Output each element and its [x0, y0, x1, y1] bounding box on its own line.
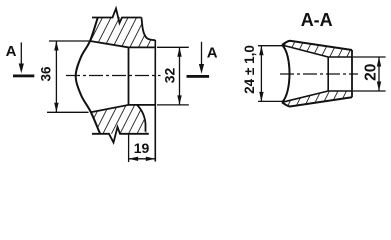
svg-text:19: 19: [134, 140, 150, 156]
A-A: mouth rim arc (bulges right): [282, 45, 290, 102]
A-A: hatched bottom wall: [282, 91, 352, 107]
dimension 24±1,0: dim line with arrows: [260, 46, 262, 102]
left view: hatched bottom wall region: [91, 105, 149, 134]
dimension 24±1,0: extension lines: [258, 45, 285, 47]
A-A: bore top edge: [328, 56, 352, 58]
A-A: right end face: [351, 50, 353, 97]
A-A: bottom outer profile: [282, 97, 352, 106]
section marker left: arrow stem and head: [20, 42, 22, 66]
svg-text:36: 36: [39, 66, 54, 82]
A-A: top inner cone line: [282, 45, 328, 57]
left view: bottom break line with zigzag: [92, 127, 149, 143]
A-A: bore left face: [327, 57, 329, 91]
dimension 19: witness lines: [128, 133, 130, 162]
left view: hatched top wall region: [90, 17, 155, 47]
svg-text:32: 32: [162, 68, 178, 84]
svg-text:20: 20: [362, 64, 379, 81]
section marker right: thick bar: [187, 75, 210, 78]
A-A: centerline: [280, 73, 358, 75]
left view: top break line with zigzag: [92, 9, 142, 24]
left view: centerline: [66, 75, 161, 77]
section marker left: thick bar: [13, 75, 34, 78]
A-A: bottom inner cone line: [282, 91, 328, 102]
A-A: bore bottom edge: [328, 90, 352, 92]
A-A: hatched top wall: [282, 41, 352, 57]
dimension 36: extension lines: [49, 40, 90, 42]
svg-text:A-A: A-A: [301, 10, 333, 30]
left view: bore left face edge: [128, 47, 130, 105]
dimension 36: dim line with arrows: [55, 41, 57, 112]
left view: top fillet to neck: [142, 18, 156, 41]
left view: bottom ogee profile: [137, 105, 146, 132]
left view: neck right face / extension to 19 dim: [154, 40, 156, 162]
extension line to 32 dim (bottom): [157, 104, 189, 106]
left view: bore top edge: [129, 46, 157, 48]
left view: bottom inner cone line: [91, 105, 129, 112]
dimension 20: extension lines: [353, 56, 386, 58]
left view: mouth rim arc: [76, 17, 100, 133]
section marker right: arrow stem and head: [201, 42, 203, 66]
svg-text:A: A: [6, 43, 17, 60]
svg-text:A: A: [207, 45, 218, 62]
left view: bore bottom edge: [129, 104, 157, 106]
A-A: top outer profile: [282, 41, 352, 50]
svg-text:24 ± 1,0: 24 ± 1,0: [242, 45, 257, 94]
extension line to 32 dim (top): [157, 46, 189, 48]
dimension 19: dim line with outward arrows: [129, 158, 156, 160]
left view: top inner cone line: [90, 41, 129, 47]
dimension 32: dim line with arrows: [179, 47, 181, 105]
dimension 20: dim line with arrows: [378, 57, 380, 91]
